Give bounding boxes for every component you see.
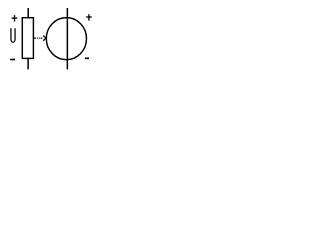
polarity + at current source <box>86 14 92 20</box>
label U <box>11 28 15 42</box>
wire top stub of source box <box>27 8 29 18</box>
polarity - at current source <box>85 57 89 59</box>
controlled current source I1 circle symbol <box>46 18 86 60</box>
control arrow head <box>43 36 46 41</box>
polarity - of voltage U <box>10 59 15 61</box>
polarity + of voltage U <box>12 15 18 21</box>
control arrow dashed line <box>34 37 43 39</box>
wire bottom stub of source box <box>27 58 29 69</box>
wire vertical line through current source <box>66 8 68 69</box>
voltage source U1 box symbol <box>22 18 33 59</box>
